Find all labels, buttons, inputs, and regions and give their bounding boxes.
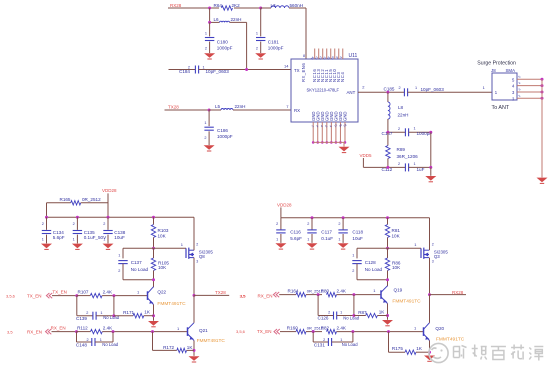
svg-text:NC4: NC4 (340, 72, 345, 82)
svg-text:3: 3 (432, 260, 434, 264)
svg-text:2: 2 (86, 311, 88, 315)
svg-text:Q21: Q21 (199, 328, 208, 333)
svg-text:0.1uF: 0.1uF (321, 236, 333, 241)
svg-text:8: 8 (303, 54, 305, 58)
svg-text:5.6pF: 5.6pF (290, 236, 302, 241)
svg-text:36R_1206: 36R_1206 (397, 154, 419, 159)
svg-text:VDD28: VDD28 (277, 203, 292, 208)
svg-text:R87: R87 (358, 310, 367, 315)
svg-text:Q22: Q22 (157, 289, 166, 294)
svg-text:1: 1 (415, 86, 417, 90)
svg-text:3,5: 3,5 (7, 330, 13, 335)
svg-text:2: 2 (399, 86, 401, 90)
svg-text:14: 14 (284, 64, 289, 69)
svg-text:2: 2 (118, 269, 120, 273)
svg-text:2: 2 (196, 242, 198, 246)
svg-text:TX_EN: TX_EN (52, 289, 67, 294)
svg-text:L6: L6 (214, 17, 220, 22)
svg-text:1: 1 (340, 311, 342, 315)
svg-text:1: 1 (495, 90, 498, 95)
svg-text:1: 1 (103, 238, 105, 242)
svg-text:R165: R165 (60, 197, 71, 202)
svg-text:2: 2 (338, 222, 340, 226)
svg-text:3,5,6: 3,5,6 (236, 329, 246, 334)
svg-text:4: 4 (512, 84, 515, 89)
svg-text:No Load: No Load (131, 267, 149, 272)
svg-text:2: 2 (73, 222, 75, 226)
svg-text:L8: L8 (398, 105, 404, 110)
svg-text:1: 1 (276, 237, 278, 241)
svg-text:C184: C184 (179, 69, 190, 74)
svg-text:1K: 1K (144, 310, 151, 315)
svg-text:Q20: Q20 (435, 326, 444, 331)
svg-text:2: 2 (205, 46, 207, 50)
svg-text:C126: C126 (318, 316, 329, 321)
svg-text:L3: L3 (271, 3, 277, 8)
svg-text:R81: R81 (392, 228, 401, 233)
svg-text:R175: R175 (392, 346, 403, 351)
svg-text:1: 1 (414, 127, 416, 131)
svg-text:TX_EN: TX_EN (257, 329, 272, 334)
svg-text:1: 1 (414, 242, 417, 247)
svg-text:1: 1 (177, 326, 180, 331)
svg-text:No Load: No Load (342, 342, 359, 347)
svg-text:C180: C180 (217, 39, 228, 44)
svg-text:C131: C131 (314, 343, 325, 348)
svg-text:3: 3 (196, 260, 198, 264)
svg-text:C139: C139 (76, 316, 87, 321)
svg-text:1: 1 (352, 254, 354, 258)
svg-text:10K: 10K (392, 265, 401, 270)
svg-text:0R_2512: 0R_2512 (82, 197, 101, 202)
svg-text:2K2: 2K2 (232, 3, 241, 8)
svg-text:3: 3 (512, 90, 515, 95)
svg-text:2: 2 (352, 269, 354, 273)
svg-text:C118: C118 (352, 229, 363, 234)
svg-text:C148: C148 (76, 343, 87, 348)
svg-text:R89: R89 (397, 147, 406, 152)
svg-text:TX28: TX28 (168, 105, 179, 110)
svg-text:Surge Protection: Surge Protection (477, 61, 516, 67)
svg-text:10pF_0603: 10pF_0603 (206, 69, 230, 74)
svg-text:2.4K: 2.4K (103, 289, 113, 294)
svg-text:C185: C185 (384, 86, 395, 91)
svg-text:5.6pF: 5.6pF (53, 235, 65, 240)
svg-text:FMMT491TC: FMMT491TC (197, 338, 226, 344)
svg-text:1: 1 (483, 85, 486, 90)
svg-text:ANT: ANT (347, 90, 356, 95)
svg-text:C117: C117 (321, 229, 332, 234)
svg-text:5: 5 (517, 75, 521, 79)
svg-text:10K: 10K (392, 234, 401, 239)
svg-text:R171: R171 (123, 310, 134, 315)
svg-text:2: 2 (256, 46, 258, 50)
svg-text:R172: R172 (163, 345, 174, 350)
svg-text:1: 1 (100, 311, 102, 315)
svg-text:RX_EN: RX_EN (258, 293, 273, 298)
svg-text:5: 5 (512, 77, 515, 82)
svg-text:R160: R160 (287, 325, 298, 330)
svg-text:3,5: 3,5 (240, 293, 246, 298)
svg-text:2.4K: 2.4K (103, 325, 113, 330)
svg-text:SKY12210-478LF: SKY12210-478LF (307, 88, 340, 93)
svg-text:2.4K: 2.4K (337, 288, 347, 293)
svg-text:2: 2 (42, 222, 44, 226)
svg-text:To ANT: To ANT (492, 105, 510, 111)
svg-text:1uF: 1uF (417, 167, 425, 172)
svg-text:VDD28: VDD28 (102, 188, 117, 193)
svg-text:J8: J8 (491, 68, 496, 73)
svg-text:1: 1 (73, 238, 75, 242)
svg-text:1: 1 (373, 288, 376, 293)
svg-text:1: 1 (414, 325, 417, 330)
svg-text:1: 1 (338, 237, 340, 241)
svg-text:1: 1 (137, 289, 140, 294)
svg-text:R82: R82 (321, 325, 330, 330)
svg-text:FMMT491TC: FMMT491TC (157, 301, 186, 307)
svg-text:19: 19 (342, 123, 347, 128)
svg-text:RX28: RX28 (170, 3, 182, 8)
svg-text:2: 2 (307, 222, 309, 226)
svg-text:FMMT491TC: FMMT491TC (392, 299, 421, 305)
svg-text:4: 4 (517, 81, 521, 85)
svg-text:C186: C186 (217, 128, 228, 133)
svg-text:1000pF: 1000pF (217, 134, 233, 139)
svg-text:1: 1 (203, 65, 205, 69)
svg-text:C137: C137 (131, 260, 142, 265)
svg-text:2: 2 (328, 311, 330, 315)
svg-text:1K: 1K (416, 346, 423, 351)
svg-text:1000pF: 1000pF (268, 46, 284, 51)
svg-text:2: 2 (86, 338, 88, 342)
svg-text:Q8: Q8 (199, 254, 205, 259)
svg-text:GND: GND (343, 111, 348, 121)
svg-text:1000pF: 1000pF (217, 46, 233, 51)
svg-text:R80: R80 (321, 288, 330, 293)
svg-text:10uF: 10uF (114, 235, 125, 240)
svg-text:2: 2 (362, 85, 365, 90)
svg-text:1K: 1K (187, 345, 194, 350)
svg-text:22nH: 22nH (231, 17, 242, 22)
svg-text:RX_EN6: RX_EN6 (301, 63, 306, 82)
svg-text:SMA: SMA (506, 68, 516, 73)
svg-text:2: 2 (432, 242, 434, 246)
svg-text:R103: R103 (158, 228, 169, 233)
svg-text:1: 1 (256, 32, 258, 36)
svg-text:1: 1 (181, 242, 184, 247)
svg-text:2: 2 (323, 338, 325, 342)
svg-text:FMMT491TC: FMMT491TC (436, 336, 465, 342)
svg-text:2: 2 (398, 162, 400, 166)
svg-text:10K: 10K (158, 265, 167, 270)
svg-text:VDD5: VDD5 (360, 153, 373, 158)
svg-text:L5: L5 (215, 104, 221, 109)
svg-text:10K: 10K (158, 234, 167, 239)
svg-text:C134: C134 (53, 230, 64, 235)
svg-text:2: 2 (517, 94, 521, 98)
svg-text:C135: C135 (84, 230, 95, 235)
svg-text:10uF: 10uF (352, 236, 363, 241)
svg-text:C116: C116 (290, 229, 301, 234)
svg-text:1: 1 (414, 162, 416, 166)
svg-text:1: 1 (307, 237, 309, 241)
svg-text:2: 2 (188, 65, 190, 69)
svg-text:10pF_0603: 10pF_0603 (421, 87, 445, 92)
svg-text:1K: 1K (379, 310, 386, 315)
svg-text:1: 1 (42, 238, 44, 242)
svg-text:Q3: Q3 (434, 254, 440, 259)
svg-text:3,5,6: 3,5,6 (6, 294, 16, 299)
svg-text:2.4K: 2.4K (337, 325, 347, 330)
svg-text:1: 1 (204, 121, 206, 125)
svg-text:C128: C128 (365, 260, 376, 265)
svg-text:22nH: 22nH (235, 104, 246, 109)
svg-text:TX: TX (294, 68, 300, 73)
svg-text:1: 1 (205, 32, 207, 36)
svg-text:No Load: No Load (365, 267, 383, 272)
svg-text:R164: R164 (288, 288, 299, 293)
svg-text:2: 2 (398, 127, 400, 131)
svg-text:TX28: TX28 (215, 290, 226, 295)
svg-text:2: 2 (103, 222, 105, 226)
svg-text:U11: U11 (349, 53, 358, 59)
svg-text:2: 2 (276, 222, 278, 226)
svg-text:TX_EN: TX_EN (27, 294, 42, 299)
svg-text:No Load: No Load (102, 342, 119, 347)
svg-text:RX28: RX28 (452, 290, 464, 295)
svg-text:C181: C181 (268, 39, 279, 44)
svg-text:RX: RX (294, 108, 300, 113)
svg-text:22nH: 22nH (398, 113, 409, 118)
svg-text:No Load: No Load (343, 315, 360, 320)
svg-text:7: 7 (286, 104, 289, 109)
svg-text:R112: R112 (77, 325, 88, 330)
svg-text:RX_EN: RX_EN (51, 326, 66, 331)
svg-text:R107: R107 (78, 289, 89, 294)
svg-text:Q19: Q19 (394, 287, 403, 292)
svg-text:1: 1 (118, 254, 120, 258)
svg-text:R64: R64 (214, 3, 223, 8)
svg-text:560nH: 560nH (290, 3, 304, 8)
svg-text:RX_EN: RX_EN (27, 330, 42, 335)
svg-text:2: 2 (204, 136, 206, 140)
svg-text:3: 3 (517, 87, 521, 91)
svg-text:C138: C138 (114, 230, 125, 235)
svg-text:2: 2 (512, 96, 515, 101)
